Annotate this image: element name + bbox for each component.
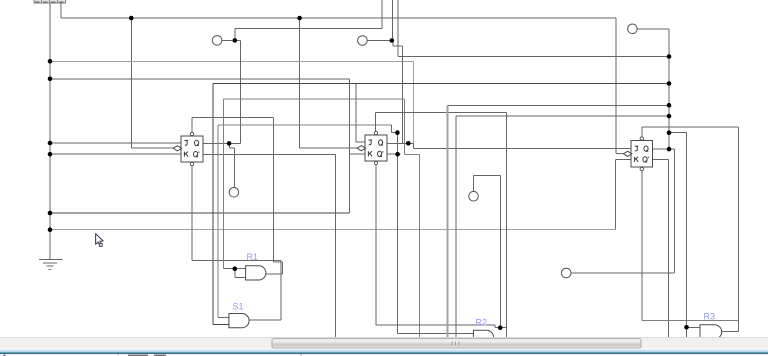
wire preset drop x=273.3 [272,118,274,263]
wire drop x=456.2 [455,116,457,338]
wire U3 Q output [652,148,674,150]
horizontal scrollbar track [0,338,768,349]
wire drop x=356.2 to U2 J [355,84,357,143]
junction R2 input node [498,325,503,330]
wire box line y=116.1 [456,115,669,117]
wire bus y=229.7 (light) [50,229,616,231]
wire link y=28.6 [235,28,382,30]
wire clock drop to U1 x=131.25 [130,18,132,148]
wire riser x=397.9 to top [397,0,399,57]
wire drop x=500.4 [499,176,501,328]
junction rail y230 [48,227,53,232]
wire U2 K stub [350,153,365,155]
wire U2 Q output [387,142,413,144]
junction U2 Q node [406,141,411,146]
wire clock bus y=18 [61,17,616,19]
junction x669 y56 [667,54,672,59]
AND gate S1 [229,314,249,328]
wire link y=175.5 [474,175,501,177]
wire drop x=397.6 to R2 [397,133,399,334]
flip-flop U1 [173,132,203,165]
wire U2 preset riser [375,112,377,132]
wire R1 lower input jog [235,269,246,278]
scrollbar grip [452,341,459,345]
junction pin1 node [233,38,238,43]
AND gate R3 [700,325,722,339]
wire input pin 2 lead [367,40,392,42]
wire jog to x=240.4 [235,40,241,143]
AND gate R1 [246,266,266,280]
output probe 1 [229,188,239,198]
input switch bank (cut off at top) [34,0,66,3]
junction x669 y133 [667,130,672,135]
svg-text:R2: R2 [476,318,488,328]
junction U1 Q node [227,141,232,146]
wire U2 clock stub [300,147,358,149]
window bottom edge: white strip, blue band, teal line, taskbar sliver [0,349,768,350]
wire riser x=282.7 [282,262,284,274]
wire S1 output stub [249,319,281,321]
junction node D2 [395,152,400,157]
wire drop x=506.3 [505,112,507,337]
wire main vertical x=669 [668,29,670,149]
output probe 3 [561,268,571,278]
wire riser x=392.6 to top [392,0,394,41]
wire U1 Q output [203,142,241,144]
wire U1 clear drop [191,166,193,260]
wire drop x=419.6 [419,154,421,337]
junction rail y61 [48,59,53,64]
junction rail K1 [48,152,53,157]
wire U1 Qbar output [203,153,336,155]
wire bus y=213 (dark) [50,212,350,214]
wire drop x=413.4 (light) [412,61,414,148]
wire preset link y=112.3 [376,111,507,113]
wire riser x=234.8 [234,29,236,41]
wire drop x=674.5 [674,149,676,273]
junction R3 input node [684,325,689,330]
junction rail J1 [48,141,53,146]
wire U3 clock stub [616,153,624,155]
wire elbow x=413.4 [412,143,414,148]
wire R2 upper input stub [398,332,474,334]
wire clock drop to U3 x=616 [615,18,617,154]
wire clear link y=260.3 [192,259,281,261]
junction x669 y149 [667,147,672,152]
wire jog to R2 node [495,325,506,328]
wire input pin 1 lead [222,39,235,41]
junction rail y79 [48,77,53,82]
wire link y=262.2 [273,261,282,263]
wire U1 Qbar drop x=335.3 [334,154,336,337]
junction clk bus / U2 [297,16,302,21]
wire U1 preset riser [191,118,193,133]
junction clk bus / U1 [129,16,134,21]
wire probe 3 lead y=273 [571,272,674,274]
wire jog to probe 1 [230,143,235,187]
wire U1 clock stub [131,147,173,149]
wire node link y=132.7 [669,132,687,134]
junction x669 y83 [667,81,672,86]
wire drop x=738.3 [737,127,739,332]
wire riser x=280.8 [280,260,282,320]
input pin 1 [212,36,222,46]
wire jog to node D1 [391,125,397,133]
wire box line y=105.3 [447,104,669,106]
wire R1 output stub [266,273,283,275]
wire component pin drop x=60.75 [60,3,62,18]
wire drop x=447.3 (light thick) [446,105,448,337]
wire U1 K input [50,153,181,155]
wire U3 preset riser [641,127,643,137]
input pin 3 [628,24,638,34]
svg-text:R3: R3 [704,312,716,322]
flip-flop U3 [623,137,652,171]
output probe 2 [469,191,479,201]
wire U3 Qbar stub [652,158,668,160]
wire drop x=404.6 [404,99,406,154]
wire preset link y=127 [642,126,739,128]
wire U1 J input [50,142,181,144]
wire bus y=78.8 [50,78,350,80]
wire U3 clear drop [641,171,643,321]
wire U2 clear drop [375,165,377,325]
wire U3 J line y=148.4 [413,147,631,149]
junction node D1 [395,130,400,135]
ground [39,259,63,269]
wire riser x=381.9 to top [381,0,383,29]
junction rail y213 [48,211,53,216]
wire clock drop to U2 x=299.6 [299,18,301,148]
wire U2 J stub [356,141,365,143]
wire U2 Qbar stub [387,153,401,155]
wire R1 feed riser x=223.4 (gray) [222,99,224,269]
flip-flop U2 [357,131,387,164]
wire dark bus left leg x=212.75 [212,84,214,325]
wire R3 upper input stub [687,326,701,328]
wire S1 upper input stub [218,316,229,318]
AND gate R2 [473,330,493,344]
junction x669 y116 [667,114,672,119]
wire drop x=686.5 [686,133,688,338]
wire jog to x=402.5 [393,41,403,144]
svg-text:S1: S1 [233,302,244,312]
wire dark bus y=83.5 [213,83,669,85]
wire S1 feed riser x=218.2 (gray) [217,125,219,317]
wire R1 upper input stub [223,268,245,270]
junction pin2 node [390,38,395,43]
wire riser x=615.5 to U3 K [615,159,617,229]
svg-text:R1: R1 [247,252,259,262]
wire R3 output stub [722,331,739,333]
mouse cursor [96,234,104,247]
wire input pin 3 lead [637,28,669,30]
wire left supply rail x=50 [49,3,51,259]
wire bus y=56.5 [398,56,669,58]
junction R1 input node [233,266,238,271]
wire preset link y=117.6 [192,117,273,119]
wire U3 Qbar drop x=668.7 [668,159,670,337]
wire bus y=61.3 (light) [50,60,413,62]
input pin 2 [358,36,368,46]
wire link y=124.8 (gray) [218,124,391,126]
wire clear link y=320.25 (gray) [642,319,739,321]
wire S1 lower input stub (dark) [213,324,229,326]
wire drop x=349.6 [349,79,351,213]
wire probe 2 riser [473,176,475,192]
wire link y=99 (gray) [223,98,404,100]
wire U3 K stub [616,158,632,160]
wire link y=154.3 [405,153,420,155]
wire link y=324.9 [376,324,495,326]
junction x669 y105 [667,103,672,108]
